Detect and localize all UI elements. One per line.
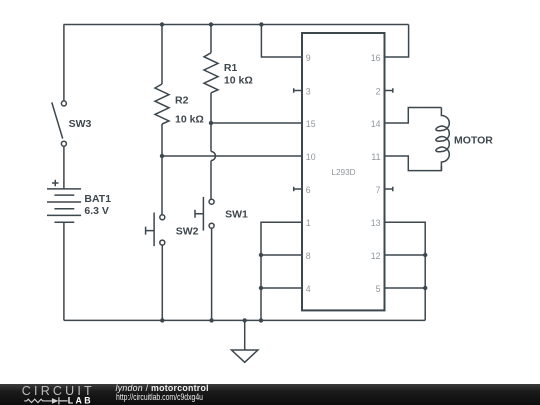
wire SW3 to battery (63, 146, 65, 189)
svg-text:BAT1: BAT1 (84, 193, 111, 205)
svg-text:15: 15 (306, 119, 316, 129)
wire battery to bottom rail (63, 222, 65, 320)
svg-text:2: 2 (376, 87, 381, 97)
pin 7 stub (385, 187, 393, 192)
wire pin5 branch (385, 287, 426, 289)
svg-text:4: 4 (306, 284, 311, 294)
switch SW1 (195, 197, 214, 231)
wire pin4 branch (261, 287, 302, 289)
switch SW3 (52, 101, 67, 146)
svg-text:SW3: SW3 (69, 118, 92, 130)
node pin12 (423, 253, 427, 257)
wire R1 to hop (210, 93, 212, 152)
svg-text:6.3 V: 6.3 V (84, 205, 109, 217)
wire hop to SW1 (210, 161, 212, 200)
svg-text:9: 9 (306, 53, 311, 63)
svg-text:R1: R1 (224, 62, 238, 74)
wire hop over pin10 net (211, 152, 216, 161)
pin numbers (306, 53, 381, 294)
node pin5 (423, 286, 427, 290)
svg-text:LAB: LAB (68, 396, 93, 405)
node top pin9 (259, 22, 263, 26)
node rail ground (243, 318, 247, 322)
svg-text:L293D: L293D (331, 168, 355, 177)
svg-text:16: 16 (371, 53, 381, 63)
op-amp U1 IC body L293D (302, 33, 385, 310)
svg-text:12: 12 (371, 251, 381, 261)
wire pin9 branch (261, 25, 302, 58)
wire pin13 branch (385, 222, 426, 320)
svg-text:6: 6 (306, 185, 311, 195)
wire pin16 drop (385, 25, 409, 58)
node top R1 (209, 22, 213, 26)
footer text line 2 (116, 392, 203, 402)
wire SW2 to bottom rail (161, 245, 163, 320)
svg-text:10: 10 (306, 152, 316, 162)
wire R2 to SW2 (161, 124, 163, 215)
logo CIRCUIT (22, 384, 95, 398)
pin 3 stub (294, 88, 302, 93)
node pin4 (259, 286, 263, 290)
wire pin8 branch (261, 254, 302, 256)
wire left rail upper (63, 25, 65, 101)
wire bottom rail (64, 319, 425, 321)
svg-text:8: 8 (306, 251, 311, 261)
node rail pins (259, 318, 263, 322)
wire pin14 to motor (385, 108, 442, 124)
wire SW1 to bottom rail (211, 228, 213, 320)
wire pin1 branch (261, 222, 302, 320)
battery BAT1 (47, 180, 81, 222)
logo symbol and LAB (20, 393, 100, 405)
node R2-pin10 (160, 154, 164, 158)
svg-text:5: 5 (376, 284, 381, 294)
inductor MOTOR coil (436, 108, 449, 171)
wire motor to pin11 (385, 156, 442, 171)
resistor R1 (204, 53, 218, 93)
svg-text:14: 14 (371, 119, 381, 129)
pin 2 stub (385, 88, 393, 93)
pin 6 stub (294, 187, 302, 192)
wire R1 top (210, 25, 212, 53)
node rail SW1 (209, 318, 213, 322)
svg-text:7: 7 (376, 185, 381, 195)
svg-text:SW2: SW2 (176, 226, 199, 238)
svg-text:SW1: SW1 (225, 209, 248, 221)
node pin8 (259, 253, 263, 257)
node top R2 (160, 22, 164, 26)
svg-text:R2: R2 (175, 95, 189, 107)
wire node R2 to pin10 (162, 155, 302, 157)
resistor R2 (155, 84, 169, 124)
ground (244, 320, 246, 350)
node rail SW2 (160, 318, 164, 322)
wire pin12 branch (385, 254, 426, 256)
node R1-pin15 (209, 121, 213, 125)
wire R1 node to pin15 (211, 122, 302, 124)
svg-text:1: 1 (306, 218, 311, 228)
svg-text:3: 3 (306, 87, 311, 97)
footer text line 1 (116, 383, 209, 393)
footer bar (0, 384, 540, 405)
svg-text:13: 13 (371, 218, 381, 228)
svg-text:10 kΩ: 10 kΩ (224, 75, 253, 87)
wire R2 top (161, 25, 163, 85)
wire top rail (64, 24, 409, 26)
svg-text:11: 11 (371, 152, 380, 162)
svg-text:10 kΩ: 10 kΩ (175, 114, 204, 126)
svg-text:MOTOR: MOTOR (454, 135, 493, 147)
switch SW2 (146, 213, 165, 247)
